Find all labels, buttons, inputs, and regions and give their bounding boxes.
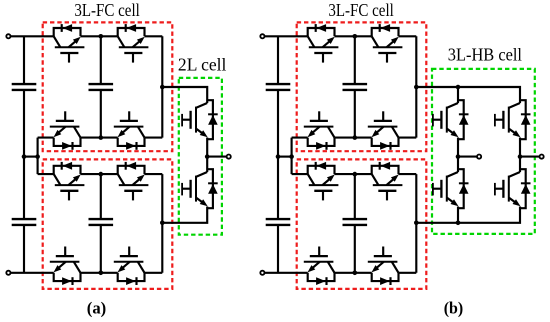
wire row3 center	[335, 173, 372, 175]
IGBT S4a with antiparallel diode	[114, 111, 145, 150]
svg-text:3L-HB cell: 3L-HB cell	[448, 44, 522, 64]
node cap top1 (b)	[353, 34, 358, 39]
capacitor Cfc1 (flying)	[89, 83, 114, 85]
wire row1 center	[81, 35, 118, 37]
IGBT S1a with antiparallel diode	[54, 24, 85, 63]
IGBT S6a with antiparallel diode	[118, 162, 149, 201]
IGBT S3b with antiparallel diode	[304, 111, 335, 150]
wire inner-rail vertical	[37, 138, 39, 175]
wire right vertical lower cell	[161, 174, 163, 273]
wire flying-cap bot upper	[354, 90, 356, 138]
wire row4 right	[399, 272, 417, 274]
wire flying-cap bot lower	[354, 225, 356, 273]
wire right vertical upper cell	[415, 36, 417, 137]
wire DC+ rail	[262, 35, 307, 37]
IGBT T1a with antiparallel diode	[182, 100, 218, 139]
IGBT S2a with antiparallel diode	[118, 24, 149, 63]
wire left bus mid	[23, 90, 25, 219]
node inner midpoint (b)	[289, 154, 294, 159]
capacitor Cfc2 (flying)	[89, 218, 114, 220]
node bus midpoint (a)	[22, 154, 27, 159]
svg-text:(b): (b)	[444, 299, 464, 318]
node HB bottom-left	[456, 221, 461, 226]
node cap top1 (a)	[99, 34, 104, 39]
IGBT S8b with antiparallel diode	[368, 247, 399, 286]
wire to output terminal a	[207, 156, 229, 158]
capacitor Cfc2 (flying)	[343, 218, 368, 220]
wire left bus lower	[277, 225, 279, 273]
output terminal b2	[540, 155, 544, 159]
green dashed box: 2L cell	[179, 78, 222, 235]
output terminal (a)	[227, 155, 231, 159]
wire row1 right	[399, 35, 417, 37]
wire row2 right	[145, 137, 163, 139]
IGBT T4b with antiparallel diode	[495, 169, 531, 208]
IGBT S5b with antiparallel diode	[308, 162, 339, 201]
red dashed box: lower 3L-FC cell (a)	[43, 159, 173, 289]
wire FC output to 2L top	[162, 87, 207, 103]
capacitor Cdc1	[266, 83, 291, 85]
IGBT T2a with antiparallel diode	[182, 169, 218, 208]
wire HB bottom rail	[416, 207, 458, 223]
wire midpoint link	[278, 156, 292, 158]
wire left bus upper	[23, 36, 25, 84]
IGBT S8a with antiparallel diode	[114, 247, 145, 286]
IGBT T1b with antiparallel diode	[433, 100, 469, 139]
wire flying-cap top lower	[354, 174, 356, 219]
wire row4 center	[335, 272, 372, 274]
node HB top-left	[456, 85, 461, 90]
IGBT S7b with antiparallel diode	[304, 247, 335, 286]
wire DC- rail	[262, 272, 307, 274]
IGBT S4b with antiparallel diode	[368, 111, 399, 150]
wire row4 right	[145, 272, 163, 274]
wire HB left top drop	[457, 87, 459, 103]
node HB left midpoint	[456, 154, 461, 159]
wire flying-cap top upper	[100, 36, 102, 84]
wire row2 center	[335, 137, 372, 139]
capacitor Cfc1 (flying)	[343, 83, 368, 85]
node lower output (b)	[414, 221, 419, 226]
svg-text:3L-FC cell: 3L-FC cell	[328, 0, 394, 20]
node inner midpoint (a)	[35, 154, 40, 159]
wire left bus mid	[277, 90, 279, 219]
node 2L midpoint	[205, 154, 210, 159]
wire inner-rail vertical	[291, 138, 293, 175]
IGBT S2b with antiparallel diode	[372, 24, 403, 63]
output terminal b1	[477, 155, 481, 159]
wire flying-cap bot lower	[100, 225, 102, 273]
wire HB bottom cross	[458, 207, 520, 223]
wire HB right mid	[519, 138, 521, 173]
IGBT S3a with antiparallel diode	[50, 111, 81, 150]
node cap bot1 (b)	[353, 135, 358, 140]
wire row3 left	[292, 173, 308, 175]
svg-text:2L cell: 2L cell	[178, 54, 227, 74]
wire row2 center	[81, 137, 118, 139]
node upper output (a)	[160, 85, 165, 90]
red dashed box: lower 3L-FC cell (b)	[297, 159, 427, 289]
wire flying-cap bot upper	[100, 90, 102, 138]
wire 2L bottom	[162, 207, 207, 223]
wire left bus upper	[277, 36, 279, 84]
node lower output (a)	[160, 221, 165, 226]
wire row2 left	[38, 137, 54, 139]
IGBT S7a with antiparallel diode	[50, 247, 81, 286]
wire left bus lower	[23, 225, 25, 273]
wire row3 center	[81, 173, 118, 175]
node cap bot1 (a)	[99, 135, 104, 140]
capacitor Cdc1	[12, 83, 37, 85]
wire row1 right	[145, 35, 163, 37]
wire flying-cap top lower	[100, 174, 102, 219]
IGBT S5a with antiparallel diode	[54, 162, 85, 201]
wire right vertical lower cell	[415, 174, 417, 273]
wire row3 right	[145, 173, 163, 175]
IGBT T3b with antiparallel diode	[433, 169, 469, 208]
wire HB left node link	[458, 156, 479, 158]
IGBT T2b with antiparallel diode	[495, 100, 531, 139]
red dashed box: upper 3L-FC cell (a)	[43, 22, 173, 151]
wire row1 center	[335, 35, 372, 37]
node cap top2 (b)	[353, 172, 358, 177]
node cap top2 (a)	[99, 172, 104, 177]
wire HB right node link	[520, 156, 542, 158]
wire row2 left	[292, 137, 308, 139]
wire 2L mid vertical	[206, 138, 208, 173]
IGBT S1b with antiparallel diode	[308, 24, 339, 63]
node cap bot2 (b)	[353, 271, 358, 276]
wire flying-cap top upper	[354, 36, 356, 84]
wire midpoint link	[24, 156, 38, 158]
IGBT S6b with antiparallel diode	[372, 162, 403, 201]
node upper output (b)	[414, 85, 419, 90]
red dashed box: upper 3L-FC cell (b)	[297, 22, 427, 151]
wire right vertical upper cell	[161, 36, 163, 137]
wire row3 left	[38, 173, 54, 175]
input terminal + (b)	[260, 34, 264, 38]
svg-text:3L-FC cell: 3L-FC cell	[74, 0, 140, 20]
wire DC- rail	[8, 272, 53, 274]
node bus midpoint (b)	[276, 154, 281, 159]
green dashed box: 3L-HB cell	[432, 69, 535, 234]
node cap bot2 (a)	[99, 271, 104, 276]
capacitor Cdc2	[266, 218, 291, 220]
wire row3 right	[399, 173, 417, 175]
input terminal - (a)	[6, 271, 10, 275]
node HB right midpoint	[518, 154, 523, 159]
wire row2 right	[399, 137, 417, 139]
wire row4 center	[81, 272, 118, 274]
wire HB top rail	[416, 87, 520, 103]
svg-text:(a): (a)	[87, 299, 107, 318]
wire DC+ rail	[8, 35, 53, 37]
input terminal - (b)	[260, 271, 264, 275]
wire HB left mid	[457, 138, 459, 173]
capacitor Cdc2	[12, 218, 37, 220]
input terminal + (a)	[6, 34, 10, 38]
